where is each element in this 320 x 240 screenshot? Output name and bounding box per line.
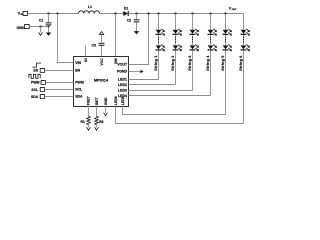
connector GND	[24, 25, 29, 29]
svg-text:SDA: SDA	[31, 95, 39, 99]
enable step symbol	[32, 63, 41, 67]
svg-text:FSET: FSET	[87, 95, 91, 105]
svg-text:String 4: String 4	[206, 55, 210, 71]
resistor R2	[96, 107, 98, 117]
wire string 6	[243, 14, 245, 124]
junction VIN drop	[56, 12, 58, 14]
junction C1 top	[47, 12, 49, 14]
wire EN	[45, 70, 74, 72]
svg-text:L1: L1	[88, 5, 92, 9]
ground under R1	[87, 127, 91, 130]
svg-text:R1: R1	[80, 120, 84, 124]
ground under C1	[46, 33, 52, 36]
junction C1 bottom	[47, 25, 49, 27]
wire VOUT pin riser	[129, 14, 149, 65]
svg-text:LED3: LED3	[118, 89, 127, 93]
svg-text:C2: C2	[127, 18, 131, 22]
LED string 5 top	[223, 30, 229, 34]
wire LED4	[129, 95, 211, 97]
wire output rail	[129, 13, 244, 15]
connector SDA	[40, 95, 44, 99]
svg-text:String 6: String 6	[239, 55, 243, 70]
junction GND row	[39, 25, 41, 27]
connector PWM	[41, 81, 45, 85]
svg-text:String 1: String 1	[154, 55, 158, 70]
ellipsis string 6	[243, 37, 244, 38]
svg-text:PWM: PWM	[75, 80, 84, 84]
svg-text:SCL: SCL	[31, 88, 38, 92]
ellipsis string 1	[158, 37, 159, 38]
svg-text:SDA: SDA	[75, 95, 83, 99]
wire PWM	[45, 82, 73, 84]
LED string 4 bottom	[208, 45, 214, 49]
svg-text:LED1: LED1	[118, 78, 127, 82]
svg-text:ISET: ISET	[95, 97, 99, 106]
wire LED3	[129, 90, 193, 92]
wire string 4	[209, 12, 211, 14]
LED string 3 bottom	[190, 45, 196, 49]
svg-text:OUT: OUT	[232, 9, 237, 11]
svg-text:PWM: PWM	[31, 81, 39, 85]
svg-text:VCC: VCC	[100, 58, 104, 66]
svg-text:IN: IN	[84, 58, 88, 62]
LED string 3 top	[190, 30, 196, 34]
svg-text:D1: D1	[124, 7, 128, 11]
wire string 2	[174, 12, 176, 14]
resistor R1	[88, 107, 90, 117]
ellipsis string 3	[192, 37, 193, 38]
wire SW riser	[115, 14, 117, 57]
wire SCL	[45, 89, 74, 91]
capacitor C1	[48, 14, 50, 23]
LED string 6 top	[241, 30, 247, 34]
svg-text:VOUT: VOUT	[117, 63, 128, 67]
wire IN pin riser	[85, 45, 87, 56]
wire LED6 return	[116, 107, 244, 124]
LED string 6 bottom	[241, 45, 247, 49]
svg-text:C3: C3	[92, 43, 96, 47]
LED string 1 top	[156, 30, 162, 34]
ground under C2	[134, 31, 140, 34]
capacitor C3	[101, 46, 103, 57]
junction SW	[114, 12, 116, 14]
svg-text:VIN: VIN	[75, 61, 81, 65]
LED string 4 top	[208, 30, 214, 34]
svg-text:C1: C1	[39, 19, 43, 23]
svg-text:String 2: String 2	[171, 55, 175, 70]
connector EN	[40, 69, 44, 73]
wire string 5	[224, 12, 226, 14]
pwm waveform symbol	[29, 74, 40, 78]
LED string 2 bottom	[173, 45, 179, 49]
wire VIN net to pin	[58, 14, 74, 63]
wire string 3	[191, 12, 193, 14]
wire GND row	[29, 26, 48, 28]
svg-text:LED2: LED2	[118, 83, 127, 87]
op-amp U1 MP3314 box	[74, 57, 129, 107]
wire string 1	[157, 12, 159, 14]
svg-text:PGND: PGND	[117, 70, 128, 74]
svg-text:GND: GND	[16, 26, 24, 30]
svg-text:String 3: String 3	[188, 55, 192, 70]
wire Vin to L1	[28, 13, 79, 15]
ground arrow PGND	[129, 71, 141, 73]
svg-text:R2: R2	[99, 120, 103, 124]
ground on GND row	[40, 27, 42, 33]
connector Vin	[23, 11, 28, 15]
svg-text:MP3314: MP3314	[94, 78, 109, 82]
capacitor C2	[135, 12, 137, 14]
svg-text:String 5: String 5	[221, 55, 225, 70]
ground under R2	[95, 127, 99, 130]
svg-text:LED6: LED6	[114, 96, 118, 105]
svg-text:SCL: SCL	[75, 88, 83, 92]
connector SCL	[40, 88, 44, 92]
wire LED1	[129, 79, 159, 81]
svg-text:EN: EN	[33, 69, 38, 73]
wire LED5 return	[123, 107, 226, 115]
wire L1 to D1	[100, 13, 124, 15]
ellipsis string 4	[210, 37, 211, 38]
svg-text:EN: EN	[75, 69, 80, 73]
svg-text:LED5: LED5	[121, 96, 125, 105]
ellipsis string 2	[175, 37, 176, 38]
wire SDA	[45, 96, 74, 98]
wire LED2	[129, 84, 176, 86]
svg-text:GND: GND	[104, 97, 108, 105]
ground GND pin	[105, 107, 107, 113]
svg-text:SW: SW	[114, 58, 118, 64]
LED string 2 top	[173, 30, 179, 34]
LED string 5 bottom	[223, 45, 229, 49]
supply arrow above C3	[99, 32, 103, 35]
LED string 1 bottom	[156, 45, 162, 49]
ellipsis string 5	[225, 37, 226, 38]
